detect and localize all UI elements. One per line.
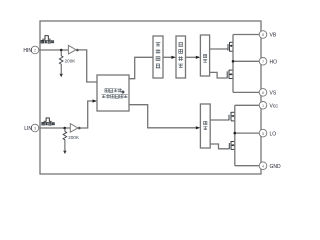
node LO junction [234,132,237,135]
svg-text:LIN: LIN [24,126,32,132]
wire latch to low drive [129,105,196,128]
wire U2 to latch box [78,101,93,128]
level shift box [153,36,163,78]
svg-text:LO: LO [270,131,277,137]
wire HIN input row [39,49,68,51]
svg-text:Vcc: Vcc [270,104,279,110]
svg-text:VS: VS [270,91,277,97]
resistor R1 200K [59,50,63,74]
pin LO [259,129,267,137]
pulse waveform (top) [42,36,50,40]
pin HO [259,58,267,66]
pin VS [259,89,267,97]
arrow into latch box [93,99,98,102]
wire drive to Q2 gate [210,72,228,78]
wire VS row [233,91,259,93]
transistor Q2 [227,70,233,79]
pin VB [259,31,267,39]
pin LIN [31,124,39,132]
label logic-input (bottom) [42,122,55,125]
resistor R2 200K [63,128,67,150]
svg-text:VB: VB [270,33,277,39]
arrow into pulse filter [171,56,176,59]
svg-text:200K: 200K [68,135,80,140]
wire Vcc row [235,104,259,106]
pulse waveform (bottom) [44,118,52,121]
node J2 [63,127,66,130]
pin HIN [31,46,39,54]
label logic-input (top) [41,40,54,43]
svg-text:1: 1 [262,104,264,108]
wire high half-bridge bus [232,35,234,93]
buffer U1 [68,45,76,54]
buffer U2 [70,124,78,133]
wire drive to Q4 gate [210,144,229,149]
transistor Q3 [229,112,235,121]
latch box text line2 [102,94,128,98]
latch / dead-time box [97,75,129,111]
wire VB row [233,34,259,36]
wire low half-bridge bus [234,105,236,165]
node J1 [60,49,63,52]
node U2 out [78,127,81,130]
wire latch to level-shift [129,57,153,78]
wire LO row [235,132,259,134]
wire LIN input row [39,127,70,129]
low side drive box [200,104,210,148]
high side drive box [200,35,209,76]
ground arrow (top) [60,74,63,77]
svg-text:HIN: HIN [23,48,32,54]
transistor Q1 [228,42,233,52]
wire U1 to latch box [76,50,97,82]
wire drive to Q3 gate [210,119,229,121]
svg-text:200K: 200K [65,59,77,64]
IC outline box [40,21,261,174]
pin GND [259,162,267,170]
svg-text:4: 4 [262,164,264,168]
svg-text:7: 7 [262,60,264,64]
svg-text:8: 8 [262,33,264,37]
wire GND row [235,165,259,167]
svg-text:2: 2 [34,49,36,53]
arrow into low drive box [196,126,201,129]
svg-text:GND: GND [270,164,282,170]
svg-text:3: 3 [34,127,36,131]
svg-text:HO: HO [270,60,278,66]
ground arrow (bottom) [63,151,66,154]
transistor Q4 [229,141,234,150]
pin Vcc [259,102,267,110]
svg-text:5: 5 [262,132,264,136]
svg-text:6: 6 [262,91,264,95]
wire pulse filter to high drive [186,56,196,58]
latch box text line1 [105,88,124,93]
pulse filter box [176,36,186,78]
node HO junction [232,60,235,63]
wire HO row [233,60,259,62]
wire level shift to pulse filter [163,56,172,58]
arrow into high drive [196,56,201,59]
node U1 out [76,49,79,52]
wire drive to Q1 gate [210,48,228,50]
